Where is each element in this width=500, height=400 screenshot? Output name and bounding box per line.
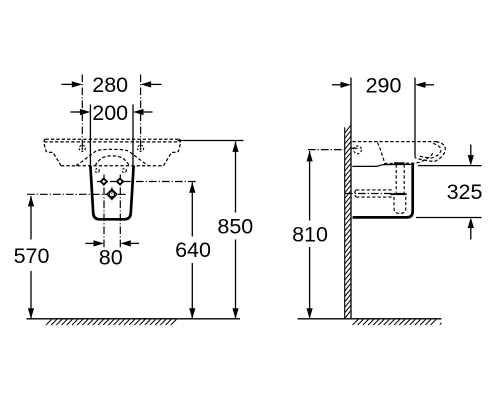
basin front inner curve dashed [418,144,441,159]
basin rim bottom dashed line (front view) [44,141,180,143]
850 reference line from basin top [178,140,244,142]
basin rim top dashed (side view) [353,141,437,143]
centerline through lower diamond to 570 reference [27,193,128,195]
svg-text:200: 200 [92,101,128,125]
floor hatching (side view) [353,319,442,325]
dimension 850 line and arrows [235,141,237,212]
trap cup dashed [394,197,406,214]
dimension 290 extension line at basin front [414,78,416,158]
dimension 290 arrows [332,84,341,86]
svg-text:325: 325 [447,180,483,204]
wall hatching [345,125,351,318]
upper-left pedestal fixing diamond [101,179,107,185]
dimension 325 arrows [470,145,472,156]
200mm extension line left [89,105,91,166]
svg-text:640: 640 [175,238,211,262]
right wall-fixing hole dashed circle [138,145,144,151]
basin rim top dashed line (front view) [46,138,180,140]
svg-text:290: 290 [366,73,402,97]
lower diamond vertical centerline [111,187,113,202]
outlet pipe lower dashed [356,196,393,198]
bowl outer dome dashed (hidden behind pedestal) [76,149,148,165]
pedestal small right arc detail [122,169,126,173]
outlet pipe end at wall dashed [355,190,356,197]
svg-text:570: 570 [14,244,50,268]
dimension 325 bottom reference line [416,217,482,219]
dimension 640 line and arrows [191,182,193,236]
svg-text:280: 280 [92,73,128,97]
centerline through upper diamonds to 640 reference [97,181,196,183]
dimension 325 top reference line [418,165,482,167]
80mm centerline right (x=120.3) [119,175,121,249]
wall back line [344,127,346,319]
tap hole cross-section dashed circle [354,146,362,154]
semi-pedestal thick outline (side view) [353,163,413,217]
pedestal small left arc detail [95,169,99,173]
floor hatching (front view) [46,319,176,325]
drain pipe dashed left [395,165,397,197]
floor line (front view) [27,318,241,320]
basin underside dashed line [61,165,164,167]
wall face line (extends up as 290 extension) [350,78,352,319]
outlet pipe upper dashed [356,189,393,191]
bowl interior profile dashed (side view) [378,143,434,164]
left wall-fixing hole dashed circle [79,145,85,151]
280mm centerline extension left [81,75,83,153]
80mm centerline left (x=104) [103,175,105,249]
floor line (side view) [298,318,442,320]
drain pipe dashed right [403,165,405,197]
tap hole tick [351,147,358,149]
basin front outer curve dashed [415,142,445,162]
outlet pipe centerline dash-dot [345,193,407,195]
200mm extension line right [132,105,134,166]
dimension 280 arrows [62,83,73,85]
semi-pedestal thick outline (front view) [90,166,133,220]
dimension 80 arrows [86,242,95,244]
svg-text:850: 850 [217,215,253,239]
basin underside solid line (side view) [352,164,411,166]
svg-text:810: 810 [292,222,328,246]
basin right end profile dashed [164,139,181,166]
waste plug dark line [394,162,405,164]
basin left end profile dashed [44,139,61,166]
dimension 200 arrows [71,111,81,113]
trap tee dark line [391,193,407,195]
fixing-height centerline dash-dot (810 reference) [308,149,344,151]
svg-text:80: 80 [99,245,123,269]
dimension 570 line and arrows [30,196,32,240]
lower pedestal fixing diamond [107,189,117,199]
dimension 810 line and arrows [309,151,311,221]
280mm centerline extension right [140,75,142,153]
upper-right pedestal fixing diamond [117,179,123,185]
bowl inner dome dashed [95,156,129,166]
